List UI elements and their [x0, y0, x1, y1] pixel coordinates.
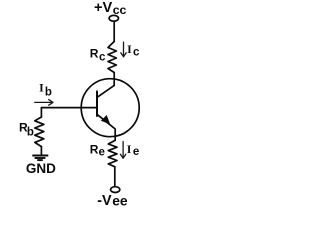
svg-text:+V: +V — [94, 0, 113, 16]
svg-text:e: e — [133, 146, 139, 158]
svg-text:b: b — [45, 87, 52, 99]
svg-text:-V: -V — [97, 193, 112, 209]
svg-text:ee: ee — [112, 194, 128, 209]
svg-text:b: b — [27, 126, 34, 138]
svg-text:I: I — [39, 81, 44, 95]
svg-text:c: c — [133, 47, 140, 59]
svg-text:R: R — [90, 46, 99, 60]
svg-text:I: I — [127, 142, 132, 156]
svg-text:e: e — [99, 146, 105, 158]
svg-text:c: c — [99, 52, 106, 64]
svg-text:R: R — [90, 142, 99, 156]
svg-text:I: I — [127, 42, 132, 56]
svg-text:GND: GND — [26, 161, 56, 176]
svg-text:cc: cc — [113, 3, 127, 17]
